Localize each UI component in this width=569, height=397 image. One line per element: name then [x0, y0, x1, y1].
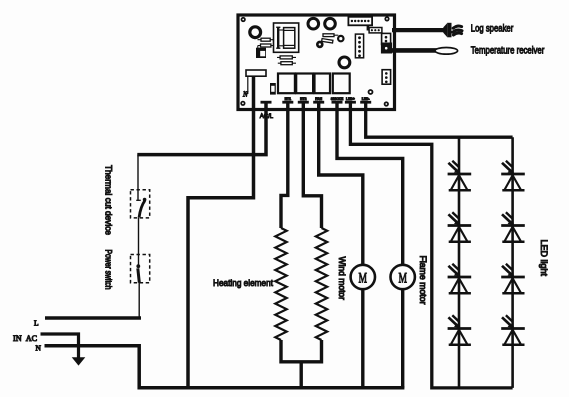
wire LED- to LED tops	[366, 103, 513, 137]
pad HT1	[282, 101, 293, 104]
svg-text:IN AC: IN AC	[13, 334, 38, 343]
svg-text:Power switch: Power switch	[104, 250, 114, 290]
mounting screw top-right	[384, 16, 389, 21]
svg-text:SMOKE: SMOKE	[331, 97, 344, 101]
switch chain wire	[138, 155, 139, 318]
capacitor C1	[256, 48, 266, 58]
relay K4	[333, 74, 350, 94]
resistor R5	[277, 56, 296, 59]
LED D2	[448, 161, 472, 190]
LED D7	[501, 212, 525, 241]
fuse F1	[271, 84, 276, 94]
svg-text:Wind motor: Wind motor	[337, 257, 347, 301]
LED D5	[448, 315, 472, 344]
pad HT2	[298, 101, 309, 104]
PCB control board U1 outline	[238, 15, 395, 110]
wire SMOKE to flame motor	[337, 103, 403, 265]
transformer T1 core bar	[276, 27, 280, 49]
wind motor M1	[351, 265, 375, 289]
svg-text:M: M	[398, 271, 407, 287]
inductor toroid L1	[250, 27, 261, 38]
capacitor C2 ring	[308, 18, 319, 29]
pad LED-	[360, 101, 371, 104]
LED D8	[501, 264, 525, 293]
transformer T1 outer	[274, 23, 299, 52]
svg-text:Heating element: Heating element	[213, 278, 273, 289]
wire earth input	[41, 334, 79, 358]
LED D3	[448, 212, 472, 241]
wire L input	[45, 316, 141, 320]
mounting screw bottom-right	[384, 101, 389, 106]
temperature receiver probe	[435, 48, 458, 55]
LED D4	[448, 264, 472, 293]
svg-text:LED+: LED+	[346, 97, 355, 101]
svg-text:LED light: LED light	[539, 240, 549, 277]
wire HT2 to heater	[303, 103, 321, 228]
connector J5 temperature	[381, 43, 392, 54]
connector J2 3-pin speaker	[367, 25, 382, 33]
svg-text:N: N	[242, 91, 248, 99]
svg-text:LED-: LED-	[362, 97, 370, 101]
power switch blade	[136, 264, 140, 282]
heater center tap to bus	[300, 362, 303, 388]
transformer T1 bobbin	[279, 28, 295, 49]
svg-text:Temperature receiver: Temperature receiver	[471, 45, 545, 57]
svg-text:Thermal cut device: Thermal cut device	[104, 165, 114, 235]
resistor R6	[278, 62, 296, 65]
pad AC/L	[261, 101, 272, 104]
resistor R4	[322, 39, 333, 43]
mounting screw top-left	[241, 17, 246, 22]
transistor Q1 donut	[317, 42, 322, 47]
thermal cut switch blade	[136, 198, 146, 218]
relay K2	[296, 74, 313, 94]
speaker wire	[392, 28, 445, 32]
heating element resistor right zigzag	[316, 228, 327, 340]
terminal block N	[246, 70, 266, 76]
svg-text:FAN: FAN	[315, 97, 322, 101]
svg-text:HT2: HT2	[300, 97, 307, 101]
power switch dashed box	[131, 255, 150, 283]
wire FAN to wind motor	[319, 103, 363, 265]
flame motor M2	[391, 265, 415, 289]
relay K3	[315, 74, 331, 94]
earth arrow	[72, 357, 86, 365]
capacitor C4 ring	[339, 57, 350, 68]
LED column left wire	[458, 137, 461, 388]
svg-text:N: N	[36, 344, 42, 353]
LED column right wire	[511, 137, 514, 388]
heater bottom connection	[281, 340, 322, 362]
pad FAN	[313, 101, 324, 104]
connector J4 2-pin right edge	[382, 33, 391, 44]
speaker sound waves	[453, 26, 462, 35]
temperature receiver wire	[392, 48, 440, 53]
mounting screw bottom-left	[240, 101, 245, 106]
wire HT1 to heater	[281, 103, 288, 228]
flame motor to bus	[401, 289, 404, 388]
connector J6 2-pin right edge lower	[382, 70, 391, 85]
connector J3 5-pin vertical	[355, 34, 363, 58]
svg-text:HT1: HT1	[285, 97, 292, 101]
svg-text:L: L	[34, 319, 39, 328]
wire N input to bottom bus	[45, 346, 405, 388]
thermal cut device dashed box	[131, 190, 150, 218]
resistor R2	[258, 44, 274, 49]
svg-text:M: M	[359, 271, 368, 287]
diode D1 donut	[338, 36, 343, 41]
pad SMOKE	[332, 101, 343, 104]
svg-text:Log speaker: Log speaker	[471, 22, 514, 34]
pad LED+	[345, 101, 356, 104]
relay K1	[278, 74, 295, 94]
wire LED+ to LED bottoms	[350, 103, 512, 388]
LED D6	[501, 161, 525, 190]
resistor R3	[323, 34, 338, 37]
terminal block N thin leg	[247, 76, 249, 94]
LED D9	[501, 315, 525, 344]
pad P8 donut	[369, 90, 373, 94]
resistor R1	[258, 38, 275, 41]
wind motor to bus	[361, 289, 364, 388]
connector J1 6-pin	[348, 17, 372, 26]
wire N from terminal block to bus	[188, 76, 254, 388]
capacitor C3 ring	[325, 18, 336, 29]
svg-text:Flame motor: Flame motor	[418, 256, 428, 305]
speaker icon SP1	[443, 23, 451, 38]
wire AC/L to switch chain	[137, 103, 266, 155]
heating element resistor left zigzag	[275, 228, 286, 340]
